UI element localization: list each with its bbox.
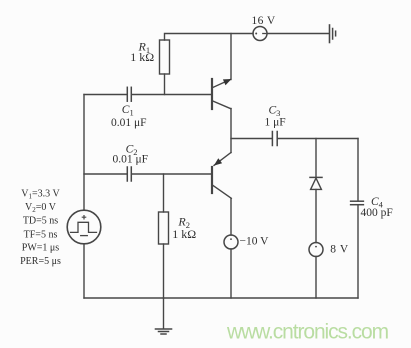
dc source 8 V bbox=[309, 243, 323, 257]
wire -10V source to bottom rail bbox=[230, 249, 232, 298]
wire C3 left segment bbox=[231, 138, 272, 140]
wire R2 to ground bbox=[163, 298, 165, 329]
wire C3 right segment bbox=[278, 138, 358, 140]
svg-text:PW=1 μs: PW=1 μs bbox=[22, 243, 60, 254]
svg-text:1 kΩ: 1 kΩ bbox=[130, 50, 154, 64]
wire Q1 emitter vertical to top rail bbox=[230, 34, 232, 80]
svg-text:0.01 μF: 0.01 μF bbox=[113, 154, 149, 166]
wire 8V source to bottom rail bbox=[315, 256, 317, 298]
svg-text:1 kΩ: 1 kΩ bbox=[172, 227, 196, 241]
wire top rail left (R1 top to 16V source) bbox=[165, 34, 254, 41]
svg-text:TD=5 ns: TD=5 ns bbox=[23, 216, 58, 227]
wire right branch lower bbox=[357, 206, 359, 298]
pulse source V1 bbox=[67, 210, 101, 244]
wire base Q2 right segment bbox=[132, 173, 211, 175]
dc source 16 V bbox=[253, 27, 267, 41]
capacitor C2 bbox=[127, 167, 131, 181]
transistor Q1 bbox=[212, 79, 232, 109]
wire between transistors bbox=[230, 109, 232, 153]
svg-text:−10 V: −10 V bbox=[240, 236, 270, 248]
svg-text:0.01 μF: 0.01 μF bbox=[111, 117, 147, 129]
wire top rail right (16V source to ground) bbox=[267, 33, 329, 35]
wire Q2 collector to -10V source bbox=[230, 199, 232, 236]
svg-text:www.cntronics.com: www.cntronics.com bbox=[226, 320, 389, 343]
capacitor C3 bbox=[272, 132, 277, 146]
wire right branch upper bbox=[357, 139, 359, 201]
capacitor C1 bbox=[127, 87, 131, 101]
svg-text:TF=5 ns: TF=5 ns bbox=[24, 229, 58, 240]
resistor R2 bbox=[159, 174, 169, 298]
svg-text:V1=3.3 V: V1=3.3 V bbox=[21, 189, 60, 201]
ground (bottom, below R2) bbox=[156, 329, 172, 334]
wire base Q1 right segment bbox=[132, 94, 211, 96]
ground (top right, rotated) bbox=[330, 25, 336, 43]
wire bottom rail bbox=[84, 297, 358, 299]
wire base Q2 left segment bbox=[84, 173, 127, 175]
wire left rail lower bbox=[83, 244, 85, 298]
wire diode to 8V source bbox=[315, 190, 317, 243]
transistor Q2 bbox=[212, 153, 231, 199]
svg-text:C1: C1 bbox=[122, 104, 134, 118]
svg-text:400 pF: 400 pF bbox=[361, 207, 393, 219]
diode D1 bbox=[310, 177, 322, 189]
svg-text:V2=0 V: V2=0 V bbox=[25, 202, 57, 214]
wire base Q1 left segment bbox=[84, 94, 127, 96]
svg-text:PER=5 μs: PER=5 μs bbox=[20, 256, 61, 267]
wire left rail upper bbox=[83, 95, 85, 211]
svg-text:8 V: 8 V bbox=[330, 244, 349, 256]
dc source -10 V bbox=[224, 235, 238, 249]
svg-text:1 μF: 1 μF bbox=[265, 117, 286, 129]
svg-text:16 V: 16 V bbox=[252, 15, 276, 27]
label pulse source parameters bbox=[20, 189, 61, 268]
resistor R1 bbox=[160, 40, 170, 95]
wire diode branch upper bbox=[315, 139, 317, 178]
capacitor C4 bbox=[351, 201, 364, 205]
